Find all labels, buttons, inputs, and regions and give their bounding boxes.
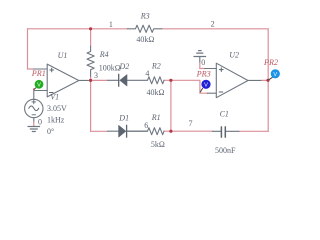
probe PR1 [33, 80, 43, 90]
capacitor C1 [212, 130, 239, 132]
svg-text:4: 4 [145, 69, 149, 78]
wire U1 + pin lead [34, 68, 48, 70]
svg-text:0: 0 [201, 58, 205, 67]
svg-text:2: 2 [211, 20, 215, 29]
svg-text:3: 3 [94, 71, 98, 80]
ground (U2, inverted) [194, 51, 206, 57]
ground (source) [28, 127, 40, 132]
svg-text:PR3: PR3 [196, 70, 211, 79]
wire R1 to bottom junction to C1 [164, 130, 212, 132]
svg-text:40kΩ: 40kΩ [147, 88, 165, 97]
wire R2 to mid junction and to U2 minus input [164, 80, 207, 93]
svg-text:1: 1 [109, 20, 113, 29]
probe PR3 [200, 80, 210, 93]
probe PR2 [269, 69, 280, 80]
svg-text:R2: R2 [151, 62, 161, 71]
svg-text:1kHz: 1kHz [47, 116, 65, 125]
wire U2 + pin lead [205, 68, 217, 70]
svg-text:3.05V: 3.05V [47, 104, 67, 113]
wire V1 to U1 minus input [34, 91, 47, 100]
wire V1 bottom to ground [33, 118, 35, 122]
svg-text:U1: U1 [58, 51, 68, 60]
svg-text:V: V [273, 72, 277, 78]
wire right vertical column [267, 29, 269, 132]
svg-text:U2: U2 [229, 51, 239, 60]
svg-text:V: V [204, 82, 208, 88]
svg-text:V: V [37, 82, 41, 88]
wire mid column junction to junction [170, 80, 172, 131]
wire mid row red U1 out to D2 [91, 79, 108, 81]
svg-text:D2: D2 [119, 62, 130, 71]
svg-text:C1: C1 [220, 110, 229, 119]
svg-text:0: 0 [38, 117, 42, 126]
wire top horizontal net 1-2 [28, 28, 269, 30]
svg-text:PR2: PR2 [263, 58, 278, 67]
svg-text:D1: D1 [118, 114, 129, 123]
wire U2 ground red segment [200, 62, 205, 69]
svg-text:PR1: PR1 [31, 69, 46, 78]
svg-text:R1: R1 [151, 113, 161, 122]
wire R4 top lead red [90, 29, 92, 46]
svg-text:100kΩ: 100kΩ [99, 64, 121, 73]
wire U1 output lead [79, 79, 89, 81]
wire vertical down from U1 output to D1 row [90, 80, 92, 131]
junction U1 output [89, 79, 92, 82]
wire U2 minus pin lead [207, 92, 216, 94]
resistor R4 [87, 46, 94, 76]
svg-text:6: 6 [144, 121, 148, 130]
junction U2 output [266, 79, 269, 82]
voltage source V1 [25, 99, 43, 117]
junction top R4 [89, 27, 92, 30]
svg-text:0°: 0° [47, 127, 54, 136]
svg-text:500nF: 500nF [215, 146, 236, 155]
junction bottom node 7 [169, 130, 172, 133]
svg-text:R4: R4 [99, 50, 109, 59]
svg-text:7: 7 [189, 119, 193, 128]
wire U2 output red to junction [262, 79, 268, 81]
diode D1 [108, 130, 148, 132]
svg-text:5kΩ: 5kΩ [151, 140, 165, 149]
wire R4 bottom red [90, 76, 92, 80]
wire U2 output lead [248, 79, 262, 81]
wire bottom row red to D1 [91, 130, 108, 132]
diode D2 [108, 79, 119, 81]
svg-text:R3: R3 [140, 11, 150, 20]
svg-text:V1: V1 [50, 93, 59, 102]
resistor R3 [127, 25, 162, 32]
op-amp U2 [216, 63, 248, 97]
resistor R2 [127, 77, 164, 84]
op-amp U1 [47, 64, 79, 97]
svg-text:40kΩ: 40kΩ [136, 35, 154, 44]
resistor R1 [128, 128, 165, 135]
junction R2 output [169, 79, 172, 82]
wire left vertical to U1 + input [28, 29, 34, 69]
wire C1 right lead to right column [239, 130, 268, 132]
